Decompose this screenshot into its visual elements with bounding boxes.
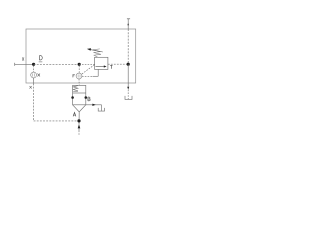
node junction dot left bbox=[32, 63, 35, 66]
pilot drain dashed down bbox=[33, 84, 35, 121]
wire X-circle down to border bbox=[33, 78, 35, 84]
relief valve flow arrow bbox=[96, 66, 105, 68]
label X bbox=[38, 74, 41, 77]
port B line bbox=[86, 104, 102, 106]
B tank drop bbox=[101, 105, 103, 111]
nozzle label D bbox=[40, 56, 43, 60]
cartridge spring bbox=[73, 86, 78, 91]
relief valve U1 body bbox=[95, 57, 108, 69]
cartridge divider bbox=[73, 92, 86, 94]
pilot drain dashed bottom horizontal bbox=[34, 120, 79, 122]
wire F to cartridge bbox=[78, 79, 80, 86]
tank T1 bbox=[125, 96, 132, 100]
poppet cone bbox=[73, 105, 86, 112]
measuring port X bbox=[31, 72, 37, 78]
T riser line bbox=[127, 19, 129, 29]
measuring port F bbox=[76, 73, 82, 79]
manifold block outline bbox=[26, 29, 136, 83]
wire dot-to-X-circle bbox=[33, 66, 35, 72]
port label at bottom boundary bbox=[30, 86, 32, 89]
pilot diagonal dashed bbox=[81, 65, 94, 75]
port X stub line bbox=[15, 63, 34, 65]
measuring port F drop bbox=[78, 66, 80, 73]
port label X on left boundary bbox=[22, 57, 24, 60]
relief valve spring bbox=[93, 49, 101, 57]
label B bbox=[88, 97, 90, 101]
label F bbox=[73, 75, 75, 78]
label A bbox=[73, 112, 76, 116]
pilot line dashed F-to-valve bbox=[79, 63, 94, 65]
node junction dot T bbox=[127, 63, 130, 66]
wire to tank bbox=[127, 90, 129, 100]
arrow up on A line bbox=[78, 124, 81, 128]
pilot line dashed left-to-F bbox=[34, 63, 80, 65]
port X stub end tick bbox=[14, 63, 16, 66]
cartridge valve body bbox=[73, 85, 86, 104]
T port arrow up bbox=[127, 23, 129, 25]
adjustment arrow bbox=[90, 49, 103, 52]
node dot cartridge left bbox=[71, 96, 74, 99]
port A line bbox=[78, 112, 80, 125]
valve outlet to T line bbox=[108, 63, 128, 65]
valve drain L bbox=[97, 69, 99, 76]
T drain down bbox=[127, 64, 129, 87]
node junction dot F bbox=[78, 63, 81, 66]
node junction dot A bbox=[77, 119, 80, 122]
arrow right on B line bbox=[92, 104, 95, 106]
arrow down bbox=[127, 87, 129, 90]
tank T2 bbox=[98, 108, 104, 111]
T port end bar bbox=[127, 18, 130, 20]
A line lower bbox=[78, 128, 80, 130]
label T bbox=[110, 65, 112, 68]
node dot cartridge right bbox=[85, 96, 88, 99]
